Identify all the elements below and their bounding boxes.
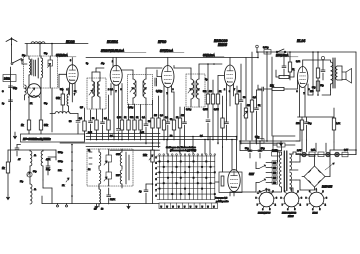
T2 coil b [196,74,199,107]
svg-text:6: 6 [312,209,313,211]
svg-text:1: 1 [266,189,267,191]
svg-text:250/260V,13,5/2,1mA: 250/260V,13,5/2,1mA [100,50,124,53]
svg-text:50μ: 50μ [308,123,312,125]
svg-text:9: 9 [259,191,260,193]
resistor R ant2 [21,120,31,130]
svg-text:130p: 130p [46,169,50,171]
transformer TR primary [280,152,282,192]
svg-text:170: 170 [310,91,314,93]
wire V2 anode up [113,58,116,67]
svg-text:0,5: 0,5 [80,107,84,109]
label 30k [56,97,61,100]
wire lamp drop 1 [315,143,317,152]
label cluster 8 [60,89,84,109]
svg-text:50: 50 [69,121,72,123]
output transformer T2 prim [331,60,333,90]
svg-text:4: 4 [275,204,276,206]
svg-text:0,3M: 0,3M [214,109,219,111]
coil L7 [97,78,100,109]
svg-text:50k: 50k [203,91,207,93]
wire am right [48,150,56,160]
tube V5 EL84 [298,67,308,88]
svg-text:EM85: EM85 [218,43,227,47]
pin digits V3 [161,89,174,95]
coil L12 [99,170,101,188]
svg-text:7: 7 [156,190,158,192]
svg-text:5: 5 [294,209,295,211]
wire drop c [271,57,273,136]
svg-text:4h: 4h [34,155,36,157]
label left col [2,91,5,105]
svg-text:U: U [172,206,174,208]
capacitor C6 [89,110,93,140]
label bus row [88,132,204,138]
svg-text:2: 2 [272,191,273,193]
wire osc tops [92,68,104,78]
fuse box3 [342,152,348,157]
transformer TR sec hv [290,152,294,170]
chassis arrow mid rail [95,204,130,209]
tube label EF89 [158,40,166,44]
matrix row wires [157,156,215,200]
annotation above EL84 [275,54,298,57]
svg-text:5: 5 [156,179,158,181]
wire left join [10,160,12,162]
tube V4 EABC80 [224,65,235,86]
svg-text:4,7k: 4,7k [46,159,51,161]
IF transformer T1 box [128,75,153,105]
tap dots [71,151,73,197]
output transformer core [333,58,335,88]
wire prim top [278,152,282,162]
svg-text:U: U [166,206,168,208]
svg-text:EF89: EF89 [158,40,166,44]
selector taps [266,161,278,185]
label cluster 10 [128,107,192,111]
svg-text:10,5k: 10,5k [110,199,115,201]
svg-text:ECH81,EF89: ECH81,EF89 [258,213,271,215]
svg-text:6: 6 [156,184,158,186]
tube V2 ECH81 [110,65,122,85]
rect arrow [325,163,335,170]
bottom rail left [42,203,159,205]
resistor R16 [206,63,209,118]
svg-text:U: U [201,206,203,208]
svg-text:3: 3 [297,91,298,93]
wire bus E [86,146,160,148]
capacitor C7 [101,109,105,140]
coil L5 horizontal [50,112,78,114]
svg-text:ECH81: ECH81 [107,40,118,44]
capacitor C5 [76,114,80,135]
wire em feeds [231,136,237,171]
socket EL84 [306,189,327,211]
tube label EABC80 [214,39,227,47]
wire left of em [215,181,219,183]
svg-text:8: 8 [156,195,158,197]
tube V3 EF89 [162,66,174,88]
svg-text:2p: 2p [2,103,5,105]
svg-text:25μ: 25μ [320,85,324,87]
svg-text:0,04μ: 0,04μ [263,47,269,49]
svg-text:2k: 2k [62,185,65,187]
label cluster 11 [22,53,48,105]
terminal circle top right [256,45,259,53]
svg-text:2k: 2k [136,117,139,119]
label cluster 7 [292,61,341,125]
speaker LS [338,66,352,83]
svg-text:190V,5,6mA: 190V,5,6mA [160,50,173,53]
matrix column wires [159,154,216,200]
svg-text:EABC80,EC92: EABC80,EC92 [282,213,297,215]
label cluster 9 [86,63,114,91]
svg-text:3: 3 [301,197,302,199]
svg-text:240Ω: 240Ω [4,78,10,81]
cap trim arrows1 [104,161,107,165]
T2 arrows [188,89,199,93]
wire mains left [229,192,231,196]
wire bus C [86,139,237,141]
wire antenna mast [11,44,13,62]
resistor R14 [172,92,175,140]
svg-text:9k: 9k [74,91,77,93]
svg-text:8: 8 [306,197,307,199]
pin labels row3 [94,199,115,211]
bandfilter box [24,56,58,88]
chassis arrow R28 [6,195,9,200]
svg-text:6: 6 [287,209,288,211]
svg-text:0,1: 0,1 [142,117,146,119]
svg-text:EL84: EL84 [297,39,305,43]
svg-text:1M: 1M [181,115,184,117]
chassis arrow left [13,132,16,139]
capacitor C19 cath [305,117,309,140]
switch contacts bottom [42,196,68,207]
svg-text:0,1: 0,1 [110,89,114,91]
wire top link [25,43,88,45]
svg-text:4: 4 [300,204,301,206]
wire right edge bottom [355,150,357,155]
svg-text:p.Stillepunkte: p.Stillepunkte [215,200,229,203]
wire bus y117 [298,116,335,118]
terminal box left [3,75,16,82]
svg-text:7: 7 [116,91,117,93]
coil L9 [41,150,43,180]
antenna A1 [6,38,17,46]
svg-text:7: 7 [74,94,75,96]
label cluster 6 [238,91,261,107]
wire V1 pins [70,83,76,102]
coil L13 [99,186,101,207]
svg-text:2: 2 [224,89,225,91]
wire mains bottom [230,189,282,194]
svg-text:8: 8 [281,197,282,199]
label 10k [270,86,275,88]
T1 arrows [130,88,146,92]
wire selector left [256,162,259,192]
wire hv second [240,143,282,150]
svg-text:6: 6 [70,60,71,62]
wire hv right [296,120,300,141]
svg-text:8: 8 [256,197,257,199]
capacitor C31 [15,145,21,157]
svg-text:U: U [207,206,209,208]
svg-text:U: U [213,206,215,208]
socket EABC80 EM85 [281,189,302,211]
svg-text:50k: 50k [130,117,134,119]
EM85 box [219,172,242,193]
wire vol [152,145,154,151]
transformer TR sec heat [290,172,294,192]
svg-text:U: U [178,206,180,208]
resistor R17 [211,80,214,140]
svg-text:40p: 40p [101,63,105,65]
cap trim arrows2 [104,177,107,181]
svg-text:1: 1 [156,157,158,159]
IF transformer T2 box [186,74,205,107]
svg-text:7: 7 [304,93,305,95]
svg-text:EL84: EL84 [313,212,319,215]
pin ticks row1 [89,152,92,164]
label 0,00p [205,79,208,81]
selector arrows [259,165,266,183]
resistor R5 [95,109,98,140]
coil L10 [30,180,32,204]
label 25u [320,85,324,87]
wire am section [30,172,52,204]
svg-text:30p: 30p [33,171,37,173]
resistor R3 [61,88,64,112]
svg-text:50p: 50p [44,53,48,55]
button row [159,203,218,209]
wire below bandfilter [29,88,52,132]
switch S1 band [11,59,27,65]
tube label ECH81 [107,40,118,44]
label cluster 1 [79,118,108,120]
coil L1 on antenna wire [31,42,45,44]
svg-text:7: 7 [257,204,258,206]
svg-text:1M: 1M [154,115,157,117]
svg-text:5: 5 [319,209,320,211]
T1 cap right [155,78,157,86]
resistor R ant1 [39,120,42,130]
capacitor C ant [9,86,18,90]
wire drop a [261,90,263,141]
resistor R7 [120,120,123,140]
bridge rectifier B250C75 [304,166,325,187]
svg-text:0,1: 0,1 [79,118,83,120]
svg-text:1k: 1k [21,124,24,127]
annotation above EC92 [56,54,76,57]
resistor R27 [332,108,335,142]
capacitor C21 [46,160,50,175]
matrix row labels [156,157,158,197]
svg-text:52W: 52W [249,173,255,176]
lamp LA1 [302,152,306,156]
svg-text:U: U [196,206,198,208]
svg-text:9: 9 [229,91,230,93]
resistor R12 [157,96,160,148]
svg-text:0,5M: 0,5M [203,109,208,111]
trimmer arrows AM [27,172,32,177]
wire drop 1 [26,44,28,57]
resistor R23 grid [270,87,287,90]
svg-text:KW: KW [116,175,120,177]
trimmer arrow osc [89,90,93,95]
svg-text:4μ: 4μ [139,191,142,193]
coil small left [25,85,27,100]
svg-text:6k: 6k [219,91,222,93]
tuning cap circle [27,84,41,98]
pin digits V5 [297,89,310,95]
svg-text:(Klammerwerte in [u] UKW): (Klammerwerte in [u] UKW) [170,149,196,152]
annotation above EF89 [160,50,184,53]
svg-text:0,2k: 0,2k [117,117,122,119]
svg-text:2: 2 [108,89,109,91]
capacitor C8 [117,129,121,141]
svg-text:2k: 2k [30,103,33,105]
svg-text:1M: 1M [247,105,250,107]
lamp LA3 [335,152,339,156]
socket label 1 [258,213,271,215]
svg-text:7: 7 [234,89,235,91]
resistor R10 [139,105,142,141]
svg-text:Stellungen des Tastenschalters: Stellungen des Tastenschalters [166,146,197,149]
label 4u [139,191,142,193]
capacitor C30 [9,89,13,110]
svg-text:0,1A: 0,1A [311,149,316,152]
tube label EL84 [297,39,305,43]
svg-text:1M: 1M [238,91,241,93]
svg-text:50p: 50p [44,103,48,105]
fuse box1 [309,152,315,157]
wire drop b [266,51,268,142]
svg-text:240: 240 [273,163,276,165]
volume pot arrow [244,111,248,116]
svg-text:9: 9 [121,89,122,91]
wire bus B [86,136,237,138]
transformer taps [290,162,299,180]
ZF label box [21,134,85,142]
socket ECH81 EF89 [256,189,277,211]
resistor R24 [288,51,291,80]
tap labels [58,152,65,187]
label cluster 3 [142,115,164,123]
svg-text:1: 1 [316,189,317,191]
svg-text:0,3: 0,3 [160,115,164,117]
svg-text:4: 4 [325,204,326,206]
svg-text:0,1μ: 0,1μ [255,137,260,139]
wire heater end [355,149,357,154]
label 0,00 [156,90,163,93]
coupling cap C17 [258,85,270,91]
svg-text:4h: 4h [34,189,36,191]
coil L3 [38,56,42,88]
label B250C75 [322,186,333,189]
capacitor C20 [321,56,325,80]
label cluster 4 [165,115,184,121]
capacitor C18 [282,57,286,76]
svg-text:35μ: 35μ [312,87,316,89]
svg-text:9: 9 [309,191,310,193]
svg-text:9: 9 [309,89,310,91]
wire V3 grid [157,70,162,77]
wire bus A [86,133,160,135]
wire em area [222,147,224,173]
socket label 2 [282,213,297,219]
resistor R28 [2,162,10,195]
wire diode line [218,76,224,91]
svg-text:4: 4 [156,174,158,176]
svg-text:U: U [190,206,192,208]
coil L11 [99,149,101,169]
wire em gnd [233,192,235,197]
svg-text:B250C75: B250C75 [322,186,333,189]
svg-text:5p: 5p [86,63,89,65]
svg-text:7: 7 [307,204,308,206]
resistor R20 [235,86,238,140]
wire drop 3 [51,43,53,56]
svg-text:ZF=468kHz+10,7MHz: ZF=468kHz+10,7MHz [22,137,51,141]
wire V2 pins down [111,84,122,141]
resistor R9 [133,104,136,140]
capacitor C24 [107,188,111,204]
capacitor C15 [255,90,259,144]
resistor R18 [216,90,219,144]
wire screen to rail [308,51,314,95]
tube V1 EC92 [67,65,79,84]
label 500p [69,121,72,123]
svg-text:0,047μ: 0,047μ [272,150,278,152]
T2 coil a [191,74,194,107]
svg-text:150: 150 [273,173,276,175]
wire T1 to EF89 [146,68,162,75]
wire drop 2 [39,43,41,56]
resistor R29 volume [149,150,154,162]
wire rect dc out [302,150,330,177]
wire V1 anode up [71,58,73,65]
svg-text:47: 47 [18,159,21,161]
svg-text:110: 110 [273,183,276,185]
capacitor C16 on rail [263,47,271,54]
capacitor C14 [239,64,243,144]
wire trans prim bottom [322,90,331,95]
wire V3 pins [164,86,172,101]
wire lamp drop 2 [325,143,327,152]
resistor R4 [83,108,86,140]
svg-text:300p: 300p [58,161,64,163]
pin labels row1 [88,150,121,156]
T1 coil a [133,75,136,105]
wire heater rail [86,57,258,59]
svg-text:50p: 50p [13,87,18,90]
label 2k2 [44,124,49,127]
svg-text:U: U [184,206,186,208]
resistor R32 [312,81,320,91]
wire power top rail [239,140,281,151]
svg-text:3: 3 [326,197,327,199]
wire heater row [293,152,356,155]
wire V3 screen right [172,91,175,93]
svg-text:14: 14 [88,169,91,171]
label cluster 5 [203,91,222,111]
wire T1 top to plate [121,70,133,75]
fuse box2 [318,152,324,157]
svg-text:2: 2 [161,91,162,93]
transformer TR core [284,151,287,191]
capacitor C10 [166,100,170,140]
wire R27 down [330,142,356,150]
